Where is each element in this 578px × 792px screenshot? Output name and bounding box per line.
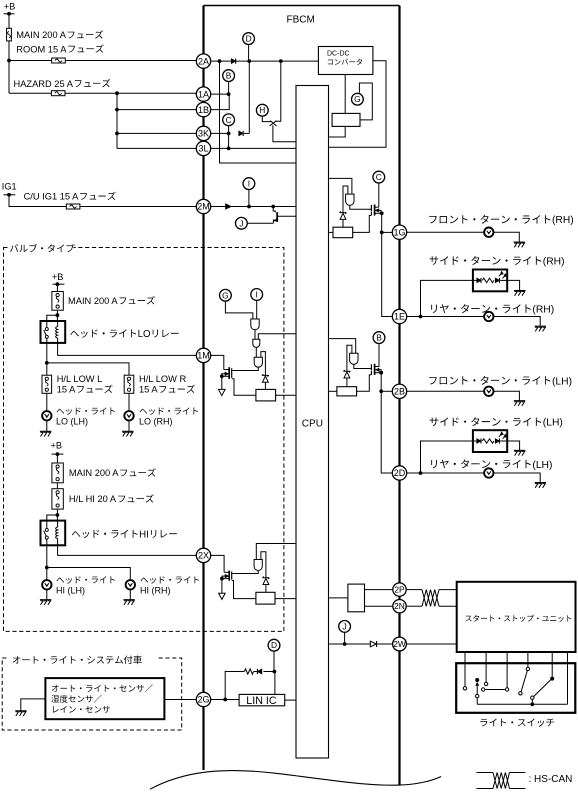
wire AND6 to gate [354,364,371,368]
transistor Q1 (H) [262,61,296,142]
svg-text:1M: 1M [197,351,210,361]
wire CPU to R4 [329,390,337,392]
svg-text:2A: 2A [198,56,209,66]
connector 1G [392,225,406,239]
wire fuse to HI relay [56,509,58,520]
bulb rear turn LH [484,468,493,477]
connector 2A [196,54,210,68]
node 2M junction Q2 [271,205,275,209]
svg-text:HI (RH): HI (RH) [140,585,171,595]
label sensors [51,684,152,713]
wire LO switch down [46,343,48,375]
node 3K feed junction [115,132,119,136]
svg-text:3K: 3K [198,129,209,139]
node J branch (2W) [343,642,347,646]
wire zener loop 2B [347,345,352,371]
diode D3 on 2W row [370,641,376,647]
wire CPU to AND5 [329,178,352,194]
gate AND3 (1M) [254,357,262,367]
wire diode to 2W [377,643,393,645]
wire switch common bottom [477,699,567,706]
resistor R1 (sense, 1M) [256,389,276,401]
node 1E branch [419,315,423,319]
wire 2G to LIN IC [210,699,239,701]
connector 3K [196,126,210,140]
svg-text:3L: 3L [198,144,208,154]
svg-text:MAIN 200 A: MAIN 200 A [69,468,119,478]
label H/L LOW L [57,374,113,395]
svg-text:FBCM: FBCM [287,14,315,25]
label H/L LOW R [139,374,195,395]
zener Z2 (2X) [262,577,269,585]
label headlight HI LH [56,576,115,595]
node M1 source [220,374,224,378]
wire zener loop 1M [261,352,266,376]
wire bulb HI RH to ground [129,590,131,600]
wire LIN IC top to diode [274,672,276,695]
label headlight HI relay [72,529,177,540]
mosfet M4 (2B) [371,364,381,375]
wire sensor to ground [21,699,46,711]
wire +B vertical feed [8,14,10,93]
resistor block below G [332,113,360,126]
resistor R4 (sense, 2B) [337,387,357,396]
wire M2 source to ground arrow [221,579,223,594]
node LIN diode junction [273,670,277,674]
wire B to mosfet drain [378,344,380,367]
node M4 source [379,371,383,375]
svg-text:2N: 2N [394,601,405,611]
label auto-light system [13,655,142,664]
svg-text:+B: +B [4,2,16,12]
wire twist to unit b [439,605,457,607]
wire side turn LH to ground [507,441,519,450]
wire B down to 1A row [228,81,230,94]
LIN IC box [239,694,285,705]
svg-text:+B: +B [52,272,64,282]
wire rear turn RH to ground [493,317,540,327]
wire switch stub 3 [506,652,508,688]
node 3K junction [227,132,231,136]
fuse H/L LOW L 15A [42,375,52,393]
wire CPU to AND4 [256,544,296,560]
node 3L junction [227,147,231,151]
arrow on 2M row [226,204,232,209]
svg-text:C: C [376,172,382,182]
fuse MAIN 200A (LO feed) [52,292,63,311]
svg-text:15 A: 15 A [57,385,76,395]
svg-text:HI (LH): HI (LH) [56,585,85,595]
switch momentary contact [475,678,479,704]
label ROOM 15A fuse [16,44,103,54]
wire R2 to CPU [275,598,296,600]
connector 1E [392,309,406,323]
fuse H/L HI 20A [52,489,63,509]
switch common t5 [550,677,554,681]
fuse C/U IG1 15A (F4) [66,204,80,209]
wire IG1 to 2M [9,195,197,207]
mosfet M2 (2X, mirrored) [222,571,232,581]
wire HAZARD row to 1A [9,92,197,94]
zener Z4 (2B) [343,370,350,378]
wire switch stub 1 [464,652,466,687]
fuse H/L LOW R 15A [124,375,134,393]
wire switch stub 2 [485,652,487,682]
LED side turn RH [473,270,507,292]
wire switch stub 4 [527,652,529,667]
switch blade 1 [519,671,528,695]
connector 1B [196,102,210,116]
relay headlight LO (K1) [41,321,66,343]
wire 2A branch to CPU [220,61,297,163]
svg-text:2P: 2P [394,585,405,595]
svg-text:(LH): (LH) [543,418,563,429]
ground front turn LH [514,401,525,406]
svg-text:IG1: IG1 [2,181,17,191]
wire 1G to 1E link [382,232,393,316]
wire +B to MAIN fuse LO [56,284,58,291]
relay headlight HI (K2) [41,521,66,546]
wire M4 source to 2B row [380,373,382,392]
wire CPU to R3 [329,231,334,233]
node 1B feed junction [115,108,119,112]
wire 2P to twist [406,589,422,591]
svg-text:MAIN 200 A: MAIN 200 A [68,296,118,306]
label LIN IC [246,695,277,707]
ground LO RH [122,431,133,436]
connector 2X [196,548,210,562]
node HI relay feed junction [56,513,60,517]
svg-text:MAIN 200 A: MAIN 200 A [16,30,66,40]
wire AND4 to gate [232,571,258,574]
label MAIN 200A fuse HI [69,468,156,478]
svg-text:G: G [354,94,361,104]
label headlight LO LH [56,407,115,426]
switch contact s1 [463,687,466,690]
wire 3L inner row to CPU [210,147,296,149]
fuse MAIN 200A (HI feed) [52,463,63,483]
node HI switch branch [45,566,49,570]
signal node C (top) [223,114,235,126]
zener Z3 (1G) [340,211,347,219]
wire fuse to LO relay [56,310,58,321]
diode D2 on 3K row [239,131,243,136]
wire LO relay switch feed [47,315,58,321]
bulb headlight HI LH [42,580,51,589]
dashed box auto-light system [2,653,182,730]
wire 2N to twist [406,605,422,607]
wire +B to MAIN fuse HI [56,454,58,463]
svg-text:LO (RH): LO (RH) [139,417,173,427]
wire 1A inner row [210,93,228,95]
wire G to AND1 [225,301,253,319]
wire J to Q2 [247,222,273,224]
mosfet M3 (1G) [371,205,381,216]
connector 2N [393,600,406,613]
wire R1 to mosfet body [232,379,256,396]
svg-text:CPU: CPU [302,419,323,430]
node 1A junction [227,92,231,96]
wire CPU to AND6 [329,339,356,354]
svg-text:B: B [226,71,232,81]
label front turn light RH [429,215,573,226]
wire LO branch to right fuse [47,363,129,375]
label start-stop unit [465,615,571,622]
wire 2B to 2D link [381,391,392,473]
wire side turn RH to ground [507,280,519,290]
connector 2M [196,199,210,213]
svg-text:HAZARD 25 A: HAZARD 25 A [14,79,74,89]
wire zener to R1 [264,382,266,389]
wire 3K row [117,132,197,134]
switch contact pair [482,688,506,691]
switch blade 2 [531,680,551,700]
signal node G (1M block) [220,289,232,301]
svg-text:2X: 2X [198,551,209,561]
node 2B junction [379,389,383,393]
wire zener to R2 [265,585,267,593]
resistor LIN pullup [244,669,253,674]
node M3 source [380,211,384,215]
svg-text:15 A: 15 A [139,385,158,395]
label HAZARD 25A fuse [14,79,111,89]
wire 2A row to DC-DC [210,60,318,62]
wire DC-DC bottom [344,75,346,114]
node M2 source [220,577,224,581]
svg-text:H/L LOW R: H/L LOW R [139,374,186,384]
label C/U IG1 15A fuse [24,192,116,202]
label headlight HI RH [140,576,199,595]
wire 1G to front turn RH [407,231,485,233]
wire CPU to 2W [329,643,371,645]
auto-light sensor box [45,678,164,719]
wire MAIN to H/L HI fuse [56,483,58,489]
power +B (battery) [4,2,16,16]
wire G block to CPU [329,126,346,137]
wire side turn LH feed [421,441,473,473]
node 2M junction I [247,205,251,209]
wire AND2 out [255,347,257,357]
wire CPU to AND2 [258,334,296,339]
svg-text:2M: 2M [197,202,210,212]
node 1G junction [380,231,384,235]
wire 2X to mosfet drain [210,555,224,572]
wire DC-DC right loop [329,61,387,148]
svg-text:I: I [256,289,258,299]
svg-text:1E: 1E [394,312,405,322]
node LO relay feed junction [56,313,60,317]
bulb headlight LO RH [124,411,133,420]
connector 1M [196,348,210,362]
svg-text:2W: 2W [393,639,406,649]
wire bulb LO RH to ground [128,421,130,432]
svg-text:2G: 2G [198,695,210,705]
wire 1M to mosfet drain [210,355,224,369]
wire AND5 to gate [350,205,371,209]
svg-text:H/L LOW L: H/L LOW L [57,374,103,384]
svg-text:(LH): (LH) [532,460,552,471]
signal node H [256,104,268,116]
wire I to 2M row [248,190,250,207]
svg-text:(RH): (RH) [543,256,565,267]
svg-text:LO: LO [138,329,151,340]
wire front turn RH to ground [493,232,519,242]
wire twist to unit a [439,589,457,591]
ground LO LH [40,431,51,436]
svg-text:1A: 1A [198,89,209,99]
signal node I (top) [243,178,255,190]
svg-text:H/L HI 20 A: H/L HI 20 A [69,494,117,504]
ground front turn RH [514,242,525,247]
svg-text:: HS-CAN: : HS-CAN [529,774,573,785]
signal node C (1G block) [373,171,385,183]
label headlight LO relay [70,329,178,340]
wire bulb HI LH to ground [46,590,48,600]
node +B/ROOM junction [7,59,11,63]
mosfet M1 (1M, mirrored) [222,367,232,379]
ground rear turn LH [535,483,546,488]
signal node J (top) [236,217,248,229]
node 2D branch [419,471,423,475]
LED side turn LH [473,430,507,452]
label HS-CAN [529,774,573,785]
fuse ROOM 15A (F2) [52,58,66,63]
wire I to AND1 [256,300,258,319]
label bulb-type [10,244,74,252]
svg-text:B: B [376,333,382,343]
DC-DC label [327,51,362,65]
svg-text:2B: 2B [394,387,405,397]
wire HI coil to 2X [58,545,197,555]
wire transceiver to 2P [365,589,394,591]
wire 2W to start-stop unit [406,643,457,645]
wire 3K inner row [210,132,249,134]
switch contact s4 [526,667,529,670]
connector 1A [196,87,210,101]
wire rear turn LH to ground [493,473,540,483]
wire to 1G [382,231,393,233]
wire HI switch down [46,545,48,580]
svg-text:(RH): (RH) [532,305,554,316]
CAN transceiver block [348,584,365,612]
signal node I (1M block) [251,289,263,301]
ground side turn RH [514,291,525,296]
svg-text:LO (LH): LO (LH) [56,417,88,427]
wave page continuation [150,771,441,790]
node 2A branch a [218,59,222,63]
wire C to mosfet drain [378,183,380,207]
connector 2D [392,466,406,480]
wire side turn RH feed [421,280,473,316]
svg-text:J: J [239,218,243,228]
ground arrow (1M) [219,389,226,395]
svg-text:H: H [259,105,265,115]
light switch box [456,663,575,713]
label rear turn light RH [431,304,554,315]
wire front turn LH to ground [493,391,519,400]
svg-text:HI: HI [139,529,149,540]
CPU label [302,419,323,430]
wire D to diode junction [273,651,275,672]
svg-text:1G: 1G [394,227,406,237]
gate AND1 (1M) [251,319,259,330]
svg-text:+B: +B [51,441,63,451]
node HAZARD branch junction [115,91,119,95]
svg-text:G: G [222,290,229,300]
wire 2M row to CPU [210,206,296,208]
svg-text:I: I [248,179,250,189]
svg-text:ROOM 15 A: ROOM 15 A [16,44,67,54]
ground rear turn RH [535,326,546,331]
wire 2B to front turn LH [407,390,485,392]
label side turn light RH [430,256,565,267]
svg-text:DC-DC: DC-DC [327,51,350,58]
wire M1 source to ground arrow [221,376,223,389]
wire to 2B [381,390,392,392]
label MAIN 200A fuse LO [68,296,155,306]
gate AND6 (2B) [350,353,358,364]
connector 2P [393,583,406,596]
power +B (HI relay) [51,441,64,456]
wire switch stub 5 [551,652,553,677]
svg-text:J: J [343,621,347,631]
wire D-line down to 3K diode [248,61,250,133]
wire sensor to 2G [164,699,197,701]
svg-text:(RH): (RH) [552,215,574,226]
wire HI branch to bulb RH [47,568,131,581]
wire D to 2A row [248,44,250,61]
wire R1 to CPU [276,394,296,396]
signal node D (top) [243,33,255,45]
wire G sense bracket [359,83,372,120]
ground HI RH [123,600,134,605]
bulb headlight LO LH [42,411,51,420]
wire to bulb LO LH [46,393,48,411]
CPU block [296,86,329,759]
wire AND1 out [254,330,256,339]
signal node D (LIN) [268,639,280,651]
label front turn light LH [429,376,572,387]
diode LIN (to D) [254,669,275,674]
dashed box bulb-type [4,242,284,631]
wire transceiver to CPU [329,597,348,599]
label headlight LO RH [139,407,198,426]
svg-text:2D: 2D [394,468,406,478]
svg-text:D: D [271,640,277,650]
wire R2 to mosfet body [232,581,256,599]
start-stop unit box [457,582,576,652]
wire LIN IC to CPU [285,699,296,701]
wire zener loop 1G [343,186,348,213]
gate AND5 (1G) [346,194,354,205]
FBCM label [287,14,315,25]
wire zener to R4 [346,379,348,387]
node LO switch branch [45,361,49,365]
bulb front turn LH [484,387,493,396]
label rear turn light LH [431,459,552,470]
connector 2G [196,692,210,706]
signal node B (top) [223,70,235,82]
wire ROOM row to 2A [9,60,197,62]
label side turn light LH [430,417,563,428]
resistor R3 (sense, 1G) [333,227,353,238]
label MAIN 200A fuse [16,30,103,40]
wire 1B to 1A junction [210,94,229,110]
wire bulb LO LH to ground [46,421,48,432]
svg-text:LIN IC: LIN IC [246,695,277,707]
wire to bulb LO RH [128,393,130,411]
power IG1 (ignition) [2,181,17,196]
